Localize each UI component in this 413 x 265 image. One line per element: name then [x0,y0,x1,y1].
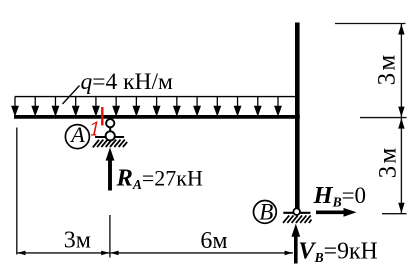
svg-text:q=4 кН/м: q=4 кН/м [81,69,174,95]
reaction force H_B arrow [316,211,346,215]
right dimension: middle tick [360,117,407,119]
svg-text:B: B [259,200,273,225]
section label 1 (red) [91,121,98,136]
node label B (circled) [254,201,277,224]
support B pin circle [293,208,300,215]
column (vertical member) [295,23,300,210]
support A pin circle (upper) [106,119,114,127]
right dimension: top tick [335,23,406,25]
support A roller link [109,126,111,133]
section line 1-1 (red) [101,107,103,126]
svg-text:3м: 3м [374,53,401,86]
bottom dimension: left extension line [16,128,18,255]
bottom dimension arrowheads [17,251,293,256]
svg-text:HB=0: HB=0 [313,182,367,210]
right dimension: bottom tick [382,213,407,215]
svg-text:3м: 3м [64,227,91,253]
distributed load arrows q [12,97,281,115]
support A roller circle (lower) [106,131,115,140]
svg-text:6м: 6м [200,228,227,254]
leader line for q label [63,86,80,105]
reaction force R_A arrow [108,159,112,191]
right dimension arrowheads [398,24,404,213]
support B ground line [283,212,310,214]
svg-text:VB=9кН: VB=9кН [298,238,377,265]
reaction force V_B arrow [294,235,298,264]
right dimension line [400,24,402,214]
support A ground line [95,136,124,138]
bottom dimension line [17,252,293,254]
svg-text:A: A [69,122,85,147]
beam AB (horizontal member) [14,115,300,119]
support A hatching [93,140,127,148]
node label A (circled) [65,125,89,149]
svg-text:RA=27кН: RA=27кН [116,165,203,193]
bottom dimension: middle extension line [109,215,111,258]
svg-text:3м: 3м [375,146,402,179]
support B hatching [283,215,312,223]
distributed load top line [15,96,295,98]
